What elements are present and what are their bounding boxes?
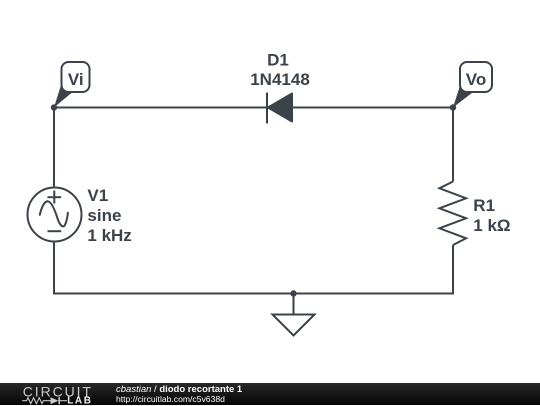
wire: right rail upper (Vo node to R1 top): [452, 108, 454, 182]
footer bar: [0, 383, 540, 405]
node flag Vi: [54, 62, 90, 108]
node Vi dot: [51, 104, 57, 110]
svg-text:Vi: Vi: [68, 70, 84, 89]
svg-text:LAB: LAB: [67, 395, 92, 405]
svg-text:1 kΩ: 1 kΩ: [473, 216, 510, 235]
svg-text:R1: R1: [473, 196, 495, 215]
svg-text:1 kHz: 1 kHz: [87, 226, 131, 245]
svg-text:V1: V1: [87, 186, 108, 205]
node Vo dot: [450, 104, 456, 110]
CircuitLab logo: [19, 383, 99, 405]
wire: top rail right segment (D1 anode to Vo node): [292, 107, 453, 109]
svg-text:1N4148: 1N4148: [250, 70, 310, 89]
wire: left rail upper (Vi node down to V1 top): [53, 108, 55, 188]
wire: right rail lower (R1 bottom to bottom rail): [452, 245, 454, 295]
wire: left rail lower (V1 bottom to bottom rail): [53, 242, 55, 295]
wire: top rail left segment (Vi node to D1 cathode): [54, 107, 267, 109]
diode D1: [267, 93, 292, 124]
node ground junction dot: [290, 290, 296, 296]
svg-text:D1: D1: [267, 51, 289, 70]
voltage source V1: [28, 188, 82, 242]
wire: bottom rail: [53, 293, 454, 295]
resistor R1: [439, 182, 466, 246]
node flag Vo: [453, 62, 492, 108]
ground: [273, 294, 315, 336]
credit text: [116, 385, 242, 406]
svg-text:sine: sine: [87, 206, 121, 225]
svg-text:Vo: Vo: [466, 70, 486, 89]
